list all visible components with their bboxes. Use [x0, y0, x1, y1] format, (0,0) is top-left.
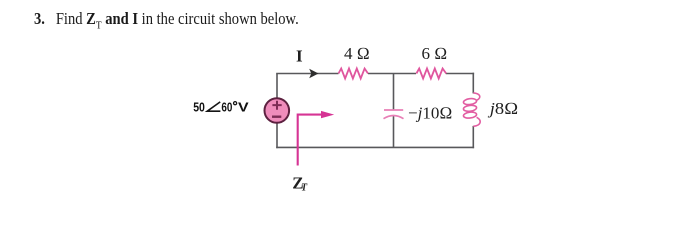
wire: top horizontal from left corner to resistor R1 [276, 73, 338, 75]
ZT arrow (magenta) [298, 115, 322, 166]
wire: right vertical below inductor [472, 126, 474, 148]
ZT arrowhead [321, 111, 334, 118]
svg-text:4 Ω: 4 Ω [344, 44, 370, 63]
svg-text:j8Ω: j8Ω [488, 99, 519, 118]
wire: left vertical above source [276, 74, 278, 98]
wire: bottom horizontal [276, 146, 474, 148]
wire: left vertical below source [276, 123, 278, 148]
minus sign inside source [272, 115, 281, 117]
wire: right vertical above inductor [472, 73, 474, 94]
svg-text:V: V [238, 99, 249, 114]
resistor R2 6-ohm zigzag [416, 69, 446, 79]
voltage source V1 circle [265, 98, 290, 123]
wire: top from R2 to right corner [446, 73, 474, 75]
capacitor C1 flat top plate [384, 109, 403, 111]
svg-text:6 Ω: 6 Ω [422, 44, 448, 63]
inductor L1 coil [463, 93, 480, 126]
svg-text:50: 50 [193, 99, 205, 114]
capacitor C1 curved bottom plate [384, 115, 404, 118]
wire: middle vertical above capacitor [393, 74, 395, 110]
wire: middle vertical below capacitor [393, 116, 395, 148]
angle symbol in source label [207, 102, 220, 111]
svg-text:60: 60 [221, 99, 232, 114]
svg-text:−j10Ω: −j10Ω [408, 104, 452, 123]
wire: top between R1 and R2 [368, 73, 416, 75]
svg-text:I: I [296, 47, 303, 66]
current arrowhead I on top wire [309, 69, 318, 79]
resistor R1 4-ohm zigzag [339, 69, 369, 79]
label 50 angle 60 V [193, 99, 249, 114]
plus sign inside source [272, 101, 281, 110]
problem title text [34, 9, 299, 31]
degree symbol [234, 102, 237, 105]
svg-text:ZT: ZT [292, 173, 308, 193]
